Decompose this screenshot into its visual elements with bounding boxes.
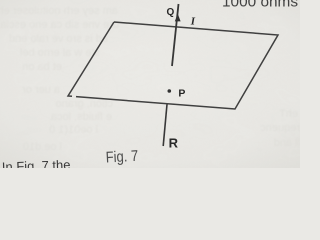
figure group [68, 4, 278, 146]
current line upper segment (Q side) [172, 4, 179, 66]
scan noise overlay [0, 0, 300, 168]
arrowhead (current direction I, pointing up) [175, 14, 181, 22]
page background [0, 0, 300, 168]
point P dot [168, 89, 172, 93]
plane outline (parallelogram) [68, 22, 278, 109]
current line lower segment (R side) [163, 104, 167, 146]
bleed-through text (mirrored, faint) [0, 5, 300, 153]
